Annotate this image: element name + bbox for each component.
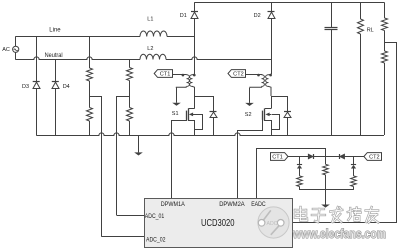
label AC: [2, 47, 10, 53]
diode D2: [268, 12, 276, 19]
wire bottom return bus: [36, 133, 384, 136]
net tag CT2: [228, 70, 246, 78]
resistor RL: [358, 19, 364, 34]
resistor sense right: [351, 176, 357, 187]
svg-text:S2: S2: [245, 112, 252, 118]
resistor neutral divider upper: [127, 68, 133, 81]
svg-text:D2: D2: [254, 13, 261, 19]
watermark text elecfans chinese: [295, 207, 378, 223]
wire sense right branch: [353, 156, 355, 190]
diode sense left clamp: [297, 165, 302, 169]
ground bus arrow: [134, 135, 143, 156]
svg-text:ADC: ADC: [267, 221, 278, 227]
transistor S1: [187, 108, 195, 121]
resistor sense burden: [323, 164, 329, 175]
diode S2 antiparallel: [284, 112, 291, 118]
svg-text:CT2: CT2: [369, 154, 380, 160]
label D3: [22, 84, 29, 90]
svg-text:D3: D3: [22, 84, 29, 90]
resistor sense left: [297, 176, 303, 187]
wire sense row left: [288, 156, 308, 158]
svg-text:ADC_01: ADC_01: [145, 214, 165, 220]
op-amp U1 UCD3020 controller box: [145, 199, 293, 248]
label Neutral: [45, 53, 63, 59]
label S2: [245, 112, 252, 118]
CT2 secondary: [246, 74, 265, 88]
svg-text:DPWM2A: DPWM2A: [219, 202, 245, 208]
wire S1 body loop: [195, 115, 203, 130]
wire S1 gate to DPWM1A: [172, 120, 187, 199]
svg-text:D4: D4: [63, 84, 70, 90]
inductor L2: [140, 54, 166, 59]
CT1 secondary: [172, 74, 189, 88]
diode sense right clamp: [351, 165, 356, 169]
wire D2 column: [271, 2, 273, 74]
label D2: [254, 13, 261, 19]
wire D1 column: [194, 2, 196, 74]
svg-text:CT2: CT2: [233, 71, 244, 77]
resistor output divider upper: [382, 18, 388, 31]
label L2: [147, 46, 153, 52]
svg-text:Line: Line: [49, 28, 61, 34]
wire S1 diode branch: [195, 96, 214, 135]
wire L1 to node A: [167, 36, 195, 38]
wire S1 source: [189, 121, 195, 136]
wire vout sense to chip: [293, 43, 397, 223]
wire ADC_01 tap: [117, 96, 145, 216]
wire S2 source: [265, 121, 272, 136]
svg-text:D1: D1: [180, 13, 187, 19]
svg-text:L2: L2: [147, 46, 153, 52]
diode D4: [52, 82, 59, 89]
svg-text:RL: RL: [367, 28, 374, 34]
capacitor output: [325, 28, 338, 30]
pin label ADC_01: [145, 214, 165, 220]
wire S2 body loop: [272, 115, 280, 130]
wire sense row right: [345, 156, 364, 158]
watermark text elecfans url: [292, 227, 386, 241]
net tag CT1 sense: [271, 153, 289, 161]
watermark logo circle: [258, 207, 289, 238]
resistor line divider lower: [87, 108, 93, 122]
resistor line divider upper: [87, 68, 93, 81]
wire L2 to node B: [166, 57, 271, 60]
svg-text:L1: L1: [147, 16, 153, 22]
wire neutral divider: [129, 60, 131, 135]
label D1: [180, 13, 187, 19]
wire S2 gate to DPWM2A: [238, 120, 263, 199]
label L1: [147, 16, 153, 22]
resistor output divider lower: [382, 51, 388, 63]
CT2 polarity dots: [257, 74, 272, 77]
wire output capacitor: [331, 2, 333, 135]
diode S1 antiparallel: [210, 112, 218, 118]
diode sense CT1: [308, 154, 313, 159]
svg-text:EADC: EADC: [251, 202, 266, 208]
AC source: [13, 36, 19, 60]
label RL: [367, 28, 374, 34]
ground CT2 secondary: [245, 88, 254, 106]
wire S2 diode branch: [271, 96, 288, 135]
svg-text:www.elecfans.com: www.elecfans.com: [292, 227, 386, 241]
wire ADC_02 tap: [89, 96, 144, 237]
diode sense CT2: [340, 154, 345, 159]
wire D3 branch: [36, 36, 38, 135]
ground sense network: [321, 190, 330, 208]
svg-text:CT1: CT1: [272, 154, 283, 160]
label S1: [172, 111, 179, 117]
net tag CT1: [154, 70, 172, 78]
label UCD3020: [201, 218, 235, 229]
svg-text:DPWM1A: DPWM1A: [161, 202, 185, 208]
ground CT1 secondary: [172, 88, 181, 106]
wire S1 drain: [188, 96, 194, 109]
diode D1: [191, 12, 198, 19]
svg-text:CT1: CT1: [160, 71, 171, 77]
wire S2 drain: [265, 96, 272, 109]
CT1 polarity dots: [182, 74, 196, 77]
wire sense row middle: [314, 156, 340, 158]
pin label DPWM1A: [161, 202, 185, 208]
inductor L1: [140, 31, 167, 36]
resistor neutral divider lower: [127, 108, 133, 122]
svg-text:ADC_02: ADC_02: [146, 237, 166, 243]
label D4: [63, 84, 70, 90]
wire sense rail: [299, 189, 354, 191]
CT1 primary: [190, 74, 195, 96]
svg-text:AC: AC: [2, 47, 10, 53]
transistor S2: [263, 108, 272, 121]
wire top DC bus: [195, 2, 385, 4]
pin label DPWM2A: [219, 202, 245, 208]
wire line divider: [89, 36, 91, 135]
wire D4 branch: [55, 60, 57, 135]
wire sense left branch: [299, 156, 301, 190]
pin label EADC: [251, 202, 266, 208]
svg-text:Neutral: Neutral: [45, 53, 63, 59]
svg-text:S1: S1: [172, 111, 179, 117]
diode D3: [33, 82, 40, 89]
pin label ADC_02: [146, 237, 166, 243]
label Line: [49, 28, 61, 34]
wire sense middle branch: [325, 156, 327, 190]
svg-text:UCD3020: UCD3020: [201, 218, 235, 229]
wire Line: [16, 36, 140, 38]
CT2 primary: [266, 74, 271, 96]
wire output divider: [384, 2, 386, 135]
wire load RL: [360, 2, 362, 135]
wire EADC: [257, 149, 326, 199]
net tag CT2 sense: [364, 153, 382, 161]
wire Neutral: [16, 57, 140, 60]
